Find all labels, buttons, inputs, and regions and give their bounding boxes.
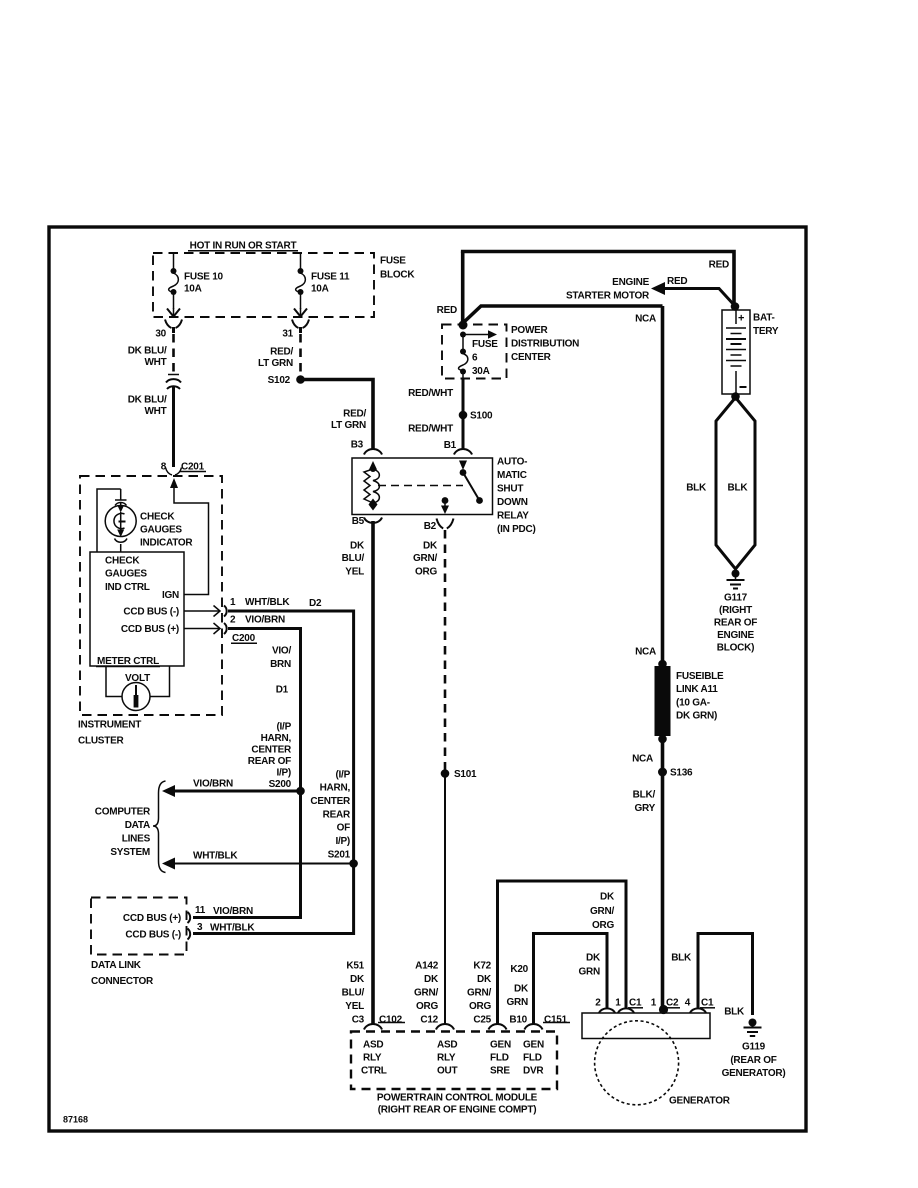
- svg-text:RED/WHT: RED/WHT: [408, 388, 453, 399]
- svg-text:DK: DK: [424, 974, 439, 985]
- svg-text:VIO/BRN: VIO/BRN: [193, 779, 233, 790]
- svg-text:POWERTRAIN CONTROL MODULE: POWERTRAIN CONTROL MODULE: [377, 1093, 538, 1104]
- svg-text:ORG: ORG: [592, 920, 615, 931]
- svg-text:DVR: DVR: [523, 1066, 544, 1077]
- svg-text:HARN,: HARN,: [320, 783, 351, 794]
- svg-text:INDICATOR: INDICATOR: [140, 538, 193, 549]
- svg-text:K51: K51: [346, 961, 364, 972]
- svg-text:GRN/: GRN/: [414, 988, 438, 999]
- svg-text:GENERATOR: GENERATOR: [669, 1096, 731, 1107]
- svg-text:+: +: [738, 313, 744, 325]
- svg-text:S102: S102: [268, 375, 291, 386]
- svg-text:D2: D2: [309, 598, 322, 609]
- svg-text:DISTRIBUTION: DISTRIBUTION: [511, 339, 579, 350]
- svg-text:ASD: ASD: [437, 1040, 457, 1051]
- svg-text:GEN: GEN: [490, 1040, 511, 1051]
- svg-text:DOWN: DOWN: [497, 497, 528, 508]
- svg-text:RED: RED: [667, 276, 687, 287]
- svg-text:COMPUTER: COMPUTER: [95, 807, 151, 818]
- svg-text:BLU/: BLU/: [342, 553, 365, 564]
- svg-text:FUSE: FUSE: [472, 339, 498, 350]
- svg-text:GRY: GRY: [634, 803, 655, 814]
- svg-text:RED/: RED/: [343, 409, 366, 420]
- svg-text:K20: K20: [510, 964, 528, 975]
- svg-text:CTRL: CTRL: [361, 1066, 387, 1077]
- svg-text:BLK: BLK: [728, 483, 749, 494]
- svg-text:BLK: BLK: [724, 1007, 745, 1018]
- svg-text:K72: K72: [473, 961, 491, 972]
- svg-text:8: 8: [161, 462, 167, 473]
- svg-text:LT GRN: LT GRN: [331, 420, 366, 431]
- svg-text:AUTO-: AUTO-: [497, 457, 527, 468]
- svg-text:(IN PDC): (IN PDC): [497, 524, 536, 535]
- svg-text:DATA: DATA: [125, 820, 150, 831]
- svg-text:CENTER: CENTER: [310, 796, 351, 807]
- svg-text:FUSE: FUSE: [380, 256, 406, 267]
- svg-text:LT GRN: LT GRN: [258, 358, 293, 369]
- svg-text:4: 4: [685, 998, 691, 1009]
- svg-text:GEN: GEN: [523, 1040, 544, 1051]
- svg-text:NCA: NCA: [635, 314, 656, 325]
- svg-text:LINES: LINES: [122, 834, 151, 845]
- svg-text:HOT IN RUN OR START: HOT IN RUN OR START: [190, 241, 297, 252]
- svg-text:BRN: BRN: [270, 659, 291, 670]
- svg-text:C151: C151: [544, 1015, 568, 1026]
- svg-text:CCD BUS (+): CCD BUS (+): [121, 624, 179, 635]
- svg-text:RLY: RLY: [363, 1053, 382, 1064]
- svg-text:87168: 87168: [63, 1115, 88, 1125]
- svg-text:GRN: GRN: [579, 967, 601, 978]
- svg-text:ORG: ORG: [415, 567, 438, 578]
- svg-text:C1: C1: [701, 998, 714, 1009]
- svg-text:VIO/BRN: VIO/BRN: [245, 615, 285, 626]
- svg-text:FUSEIBLE: FUSEIBLE: [676, 671, 724, 682]
- svg-text:D1: D1: [276, 685, 289, 696]
- svg-text:WHT/BLK: WHT/BLK: [245, 597, 290, 608]
- svg-text:CHECK: CHECK: [105, 556, 140, 567]
- svg-text:DK: DK: [600, 892, 615, 903]
- svg-text:S136: S136: [670, 768, 693, 779]
- svg-text:6: 6: [472, 353, 478, 364]
- svg-text:BLOCK): BLOCK): [717, 643, 754, 654]
- svg-text:STARTER MOTOR: STARTER MOTOR: [566, 291, 650, 302]
- svg-text:3: 3: [197, 922, 203, 933]
- svg-text:C12: C12: [420, 1015, 438, 1026]
- svg-text:C3: C3: [352, 1015, 365, 1026]
- svg-text:IGN: IGN: [162, 590, 179, 601]
- svg-text:30A: 30A: [472, 366, 490, 377]
- svg-text:1: 1: [230, 597, 236, 608]
- svg-text:B3: B3: [351, 440, 364, 451]
- svg-text:2: 2: [595, 998, 601, 1009]
- svg-text:VIO/BRN: VIO/BRN: [213, 906, 253, 917]
- svg-text:1: 1: [615, 998, 621, 1009]
- svg-text:C200: C200: [232, 633, 256, 644]
- svg-text:CHECK: CHECK: [140, 512, 175, 523]
- svg-text:C1: C1: [629, 998, 642, 1009]
- svg-text:GAUGES: GAUGES: [105, 569, 147, 580]
- svg-text:C2: C2: [666, 998, 679, 1009]
- svg-text:SYSTEM: SYSTEM: [110, 847, 150, 858]
- svg-text:DK: DK: [350, 974, 365, 985]
- svg-text:B1: B1: [444, 440, 457, 451]
- svg-text:(10 GA-: (10 GA-: [676, 698, 710, 709]
- svg-text:DK GRN): DK GRN): [676, 711, 717, 722]
- svg-text:TERY: TERY: [753, 326, 779, 337]
- svg-text:11: 11: [195, 905, 206, 916]
- svg-text:DK BLU/: DK BLU/: [128, 395, 167, 406]
- svg-text:BLOCK: BLOCK: [380, 270, 415, 281]
- svg-text:ENGINE: ENGINE: [717, 630, 754, 641]
- svg-text:YEL: YEL: [345, 567, 364, 578]
- svg-text:S200: S200: [269, 779, 292, 790]
- svg-text:REAR: REAR: [323, 810, 351, 821]
- svg-text:CCD BUS (+): CCD BUS (+): [123, 913, 181, 924]
- svg-text:10A: 10A: [311, 284, 329, 295]
- svg-text:RED/WHT: RED/WHT: [408, 424, 453, 435]
- svg-text:(RIGHT: (RIGHT: [719, 605, 752, 616]
- svg-text:REAR OF: REAR OF: [248, 756, 291, 767]
- svg-text:HARN,: HARN,: [261, 733, 292, 744]
- svg-text:10A: 10A: [184, 284, 202, 295]
- svg-text:B10: B10: [509, 1015, 527, 1026]
- svg-text:FLD: FLD: [523, 1053, 542, 1064]
- svg-text:GRN/: GRN/: [467, 988, 491, 999]
- svg-text:RED/: RED/: [270, 347, 293, 358]
- svg-text:CLUSTER: CLUSTER: [78, 736, 125, 747]
- svg-text:RLY: RLY: [437, 1053, 456, 1064]
- svg-text:RED: RED: [709, 260, 729, 271]
- svg-text:DK: DK: [477, 974, 492, 985]
- svg-text:WHT/BLK: WHT/BLK: [210, 923, 255, 934]
- svg-text:FUSE 11: FUSE 11: [311, 272, 350, 283]
- svg-text:ORG: ORG: [469, 1001, 492, 1012]
- svg-text:2: 2: [230, 615, 236, 626]
- svg-text:31: 31: [282, 329, 293, 340]
- svg-text:B5: B5: [352, 516, 365, 527]
- svg-text:I/P): I/P): [335, 836, 350, 847]
- svg-text:METER CTRL: METER CTRL: [97, 656, 159, 667]
- svg-text:INSTRUMENT: INSTRUMENT: [78, 720, 141, 731]
- svg-text:GRN/: GRN/: [413, 553, 437, 564]
- svg-text:WHT: WHT: [144, 357, 166, 368]
- svg-text:GRN/: GRN/: [590, 906, 614, 917]
- svg-text:MATIC: MATIC: [497, 470, 527, 481]
- svg-text:BLK/: BLK/: [633, 790, 656, 801]
- svg-text:OUT: OUT: [437, 1066, 458, 1077]
- svg-text:DK: DK: [514, 984, 529, 995]
- svg-text:B2: B2: [424, 521, 437, 532]
- svg-text:(I/P: (I/P: [276, 722, 291, 733]
- svg-text:CENTER: CENTER: [251, 745, 292, 756]
- svg-text:YEL: YEL: [345, 1001, 364, 1012]
- svg-text:G119: G119: [742, 1042, 766, 1053]
- svg-text:FUSE 10: FUSE 10: [184, 272, 224, 283]
- svg-text:SHUT: SHUT: [497, 484, 523, 495]
- svg-text:WHT/BLK: WHT/BLK: [193, 851, 238, 862]
- svg-text:CENTER: CENTER: [511, 352, 552, 363]
- svg-text:ASD: ASD: [363, 1040, 383, 1051]
- svg-text:1: 1: [651, 998, 657, 1009]
- svg-text:VIO/: VIO/: [272, 646, 291, 657]
- svg-text:G117: G117: [724, 593, 748, 604]
- svg-text:C25: C25: [473, 1015, 491, 1026]
- svg-text:GENERATOR): GENERATOR): [722, 1068, 786, 1079]
- svg-text:ORG: ORG: [416, 1001, 439, 1012]
- svg-text:S100: S100: [470, 411, 493, 422]
- svg-text:BLU/: BLU/: [342, 988, 365, 999]
- svg-text:DK BLU/: DK BLU/: [128, 346, 167, 357]
- svg-text:ENGINE: ENGINE: [612, 277, 649, 288]
- svg-text:CONNECTOR: CONNECTOR: [91, 976, 154, 987]
- svg-text:(RIGHT REAR OF ENGINE COMPT): (RIGHT REAR OF ENGINE COMPT): [378, 1105, 537, 1116]
- svg-text:DATA LINK: DATA LINK: [91, 960, 142, 971]
- svg-text:LINK A11: LINK A11: [676, 684, 718, 695]
- svg-text:OF: OF: [337, 823, 351, 834]
- svg-text:SRE: SRE: [490, 1066, 510, 1077]
- svg-text:30: 30: [155, 329, 166, 340]
- svg-text:A142: A142: [415, 961, 439, 972]
- svg-text:FLD: FLD: [490, 1053, 509, 1064]
- svg-text:BAT-: BAT-: [753, 313, 775, 324]
- svg-text:IND CTRL: IND CTRL: [105, 582, 150, 593]
- svg-text:BLK: BLK: [686, 483, 707, 494]
- svg-text:S101: S101: [454, 769, 477, 780]
- svg-text:CCD BUS (-): CCD BUS (-): [125, 930, 181, 941]
- svg-text:S201: S201: [328, 850, 351, 861]
- svg-text:NCA: NCA: [635, 647, 656, 658]
- svg-text:CCD BUS (-): CCD BUS (-): [123, 607, 179, 618]
- svg-text:NCA: NCA: [632, 754, 653, 765]
- svg-text:BLK: BLK: [671, 953, 692, 964]
- svg-text:RED: RED: [437, 305, 457, 316]
- svg-text:C102: C102: [379, 1015, 403, 1026]
- svg-text:DK: DK: [350, 541, 365, 552]
- svg-text:I/P): I/P): [276, 768, 291, 779]
- svg-text:(I/P: (I/P: [335, 770, 350, 781]
- svg-text:WHT: WHT: [144, 406, 166, 417]
- svg-text:GRN: GRN: [507, 997, 529, 1008]
- svg-text:REAR OF: REAR OF: [714, 618, 757, 629]
- svg-text:RELAY: RELAY: [497, 511, 529, 522]
- svg-text:POWER: POWER: [511, 325, 549, 336]
- svg-text:(REAR OF: (REAR OF: [730, 1055, 776, 1066]
- svg-text:GAUGES: GAUGES: [140, 525, 182, 536]
- svg-text:DK: DK: [423, 541, 438, 552]
- svg-text:DK: DK: [586, 953, 601, 964]
